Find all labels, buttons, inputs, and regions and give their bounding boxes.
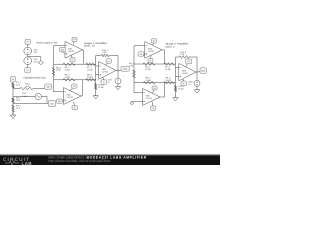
svg-text:Gain: 10: Gain: 10 [84,45,95,48]
svg-text:LM741: LM741 [146,97,153,100]
svg-text:V-: V- [74,106,76,109]
svg-text:10 kΩ: 10 kΩ [87,76,93,79]
svg-text:15 V: 15 V [34,51,39,54]
svg-text:LM741: LM741 [67,96,74,99]
svg-text:1 kΩ: 1 kΩ [180,53,185,56]
svg-text:V-: V- [152,107,154,110]
svg-text:VA-: VA- [50,102,54,105]
svg-text:1 kΩ: 1 kΩ [129,65,134,68]
svg-text:Gain: 2: Gain: 2 [166,45,176,48]
svg-text:VA-: VA- [58,100,62,103]
svg-text:LM741: LM741 [148,50,155,53]
svg-text:10 kΩ: 10 kΩ [87,68,93,71]
svg-text:10 kΩ: 10 kΩ [165,68,171,71]
svg-text:10 kΩ: 10 kΩ [146,79,152,82]
svg-text:10 kΩ: 10 kΩ [145,68,151,71]
svg-text:(Adjustable) Monitor Input: (Adjustable) Monitor Input [24,76,46,79]
svg-text:V-: V- [72,59,74,62]
svg-text:LM741: LM741 [102,70,109,73]
svg-text:Power Supply (+-15): Power Supply (+-15) [37,42,58,45]
svg-text:20 kΩ: 20 kΩ [178,88,184,91]
svg-text:1 kΩ: 1 kΩ [56,69,61,72]
svg-text:LAB: LAB [22,161,33,165]
svg-text:LM741: LM741 [68,50,75,53]
svg-text:1 kHz: 1 kHz [22,95,27,98]
svg-text:LM741: LM741 [182,72,189,75]
svg-text:1 kΩ: 1 kΩ [102,51,107,54]
svg-text:10 kΩ: 10 kΩ [65,68,71,71]
svg-text:V-: V- [27,69,29,72]
svg-text:15 V: 15 V [34,61,39,64]
svg-text:V-: V- [103,81,105,84]
svg-text:20 kΩ: 20 kΩ [98,86,104,89]
svg-text:V-: V- [183,82,185,85]
svg-text:V-: V- [150,59,152,62]
svg-text:http://www.circuitlab.com/circ: http://www.circuitlab.com/circuit/c2qvE2… [49,159,111,163]
svg-text:10 kΩ: 10 kΩ [65,76,71,79]
svg-text:10 kΩ: 10 kΩ [166,79,172,82]
